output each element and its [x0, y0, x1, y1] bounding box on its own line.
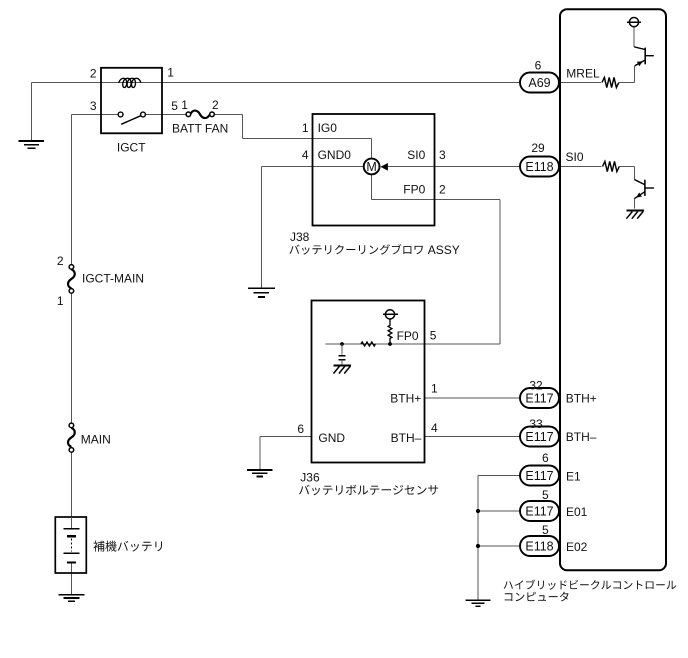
- svg-text:BATT FAN: BATT FAN: [172, 121, 228, 135]
- svg-text:GND: GND: [318, 431, 345, 445]
- svg-text:2: 2: [90, 66, 97, 80]
- svg-text:1: 1: [167, 66, 174, 80]
- svg-text:33: 33: [529, 417, 543, 431]
- svg-text:E117: E117: [525, 469, 553, 483]
- svg-text:5: 5: [542, 523, 549, 537]
- svg-text:6: 6: [542, 451, 549, 465]
- svg-text:E118: E118: [525, 540, 553, 554]
- svg-text:6: 6: [297, 422, 304, 436]
- svg-text:1: 1: [181, 98, 188, 112]
- svg-text:5: 5: [171, 99, 178, 113]
- svg-text:E117: E117: [525, 392, 553, 406]
- svg-text:FP0: FP0: [397, 329, 419, 343]
- svg-text:5: 5: [542, 488, 549, 502]
- svg-text:ASSY: ASSY: [428, 243, 460, 257]
- svg-text:32: 32: [529, 378, 543, 392]
- svg-text:1: 1: [57, 294, 64, 308]
- svg-text:IG0: IG0: [318, 121, 338, 135]
- svg-text:SI0: SI0: [566, 150, 584, 164]
- svg-text:29: 29: [531, 141, 545, 155]
- svg-text:BTH–: BTH–: [391, 431, 422, 445]
- svg-text:5: 5: [430, 328, 437, 342]
- svg-text:BTH+: BTH+: [390, 391, 421, 405]
- svg-text:BTH+: BTH+: [566, 391, 597, 405]
- svg-text:SI0: SI0: [407, 148, 425, 162]
- svg-text:E02: E02: [566, 540, 588, 554]
- svg-text:E117: E117: [525, 505, 553, 519]
- svg-text:E01: E01: [566, 505, 588, 519]
- svg-text:BTH–: BTH–: [566, 430, 597, 444]
- svg-text:E117: E117: [525, 430, 553, 444]
- svg-text:1: 1: [431, 382, 438, 396]
- svg-text:1: 1: [302, 121, 309, 135]
- svg-text:IGCT: IGCT: [117, 141, 146, 155]
- svg-text:4: 4: [431, 421, 438, 435]
- svg-text:MAIN: MAIN: [81, 432, 111, 446]
- svg-text:FP0: FP0: [403, 183, 425, 197]
- svg-text:6: 6: [535, 59, 542, 73]
- svg-text:IGCT-MAIN: IGCT-MAIN: [82, 271, 144, 285]
- svg-text:3: 3: [90, 99, 97, 113]
- svg-text:3: 3: [439, 148, 446, 162]
- svg-text:E118: E118: [525, 160, 553, 174]
- svg-text:MREL: MREL: [566, 67, 600, 81]
- svg-text:GND0: GND0: [318, 148, 352, 162]
- svg-text:2: 2: [212, 98, 219, 112]
- svg-text:E1: E1: [566, 469, 581, 483]
- svg-text:J38: J38: [290, 230, 310, 244]
- svg-text:2: 2: [439, 183, 446, 197]
- svg-text:A69: A69: [528, 76, 550, 90]
- svg-text:4: 4: [302, 148, 309, 162]
- svg-text:2: 2: [57, 254, 64, 268]
- svg-text:J36: J36: [300, 470, 320, 484]
- svg-text:M: M: [366, 160, 376, 174]
